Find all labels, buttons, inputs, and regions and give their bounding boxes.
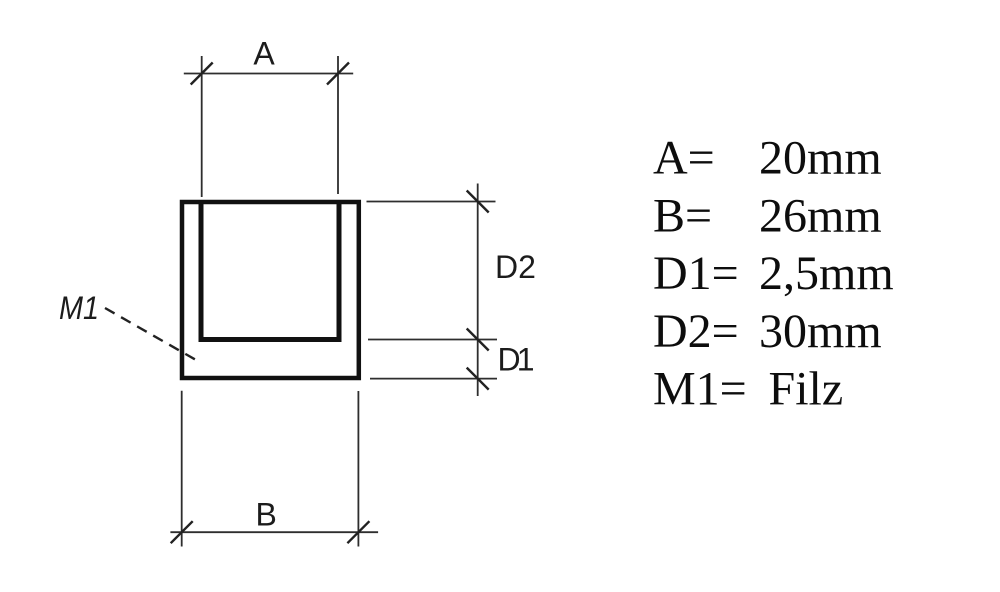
svg-text:D1=: D1= bbox=[653, 247, 739, 300]
tick B right bbox=[347, 521, 369, 543]
extension line middle (inner bottom) bbox=[368, 339, 497, 341]
profile inner U (tube cavity) bbox=[201, 201, 339, 340]
svg-text:30mm: 30mm bbox=[759, 305, 882, 358]
svg-text:A: A bbox=[253, 36, 275, 72]
tick D middle bbox=[467, 329, 489, 351]
svg-text:A=: A= bbox=[653, 132, 715, 185]
svg-text:B=: B= bbox=[653, 189, 712, 242]
extension line bottom (outer bottom) bbox=[370, 378, 497, 380]
tick A left bbox=[191, 63, 213, 85]
tick D top bbox=[467, 191, 489, 213]
dimension B extension line right bbox=[357, 391, 359, 547]
tick D bottom bbox=[467, 368, 489, 390]
dimension A extension line left bbox=[201, 56, 203, 197]
svg-text:2,5mm: 2,5mm bbox=[759, 247, 894, 300]
dimension B line bbox=[170, 531, 378, 533]
svg-text:20mm: 20mm bbox=[759, 132, 882, 185]
svg-text:D2: D2 bbox=[495, 249, 536, 285]
tick A right bbox=[327, 63, 349, 85]
profile outer rectangle (cap cross-section) bbox=[182, 202, 359, 378]
svg-text:26mm: 26mm bbox=[759, 189, 882, 242]
svg-text:B: B bbox=[256, 496, 277, 532]
dimension A line bbox=[184, 73, 353, 75]
tick B left bbox=[171, 521, 193, 543]
dimension D vertical line bbox=[477, 184, 479, 397]
svg-text:Filz: Filz bbox=[769, 363, 844, 416]
dimension B extension line left bbox=[181, 391, 183, 547]
extension line top (profile top) bbox=[367, 201, 496, 203]
dimension A extension line right bbox=[337, 56, 339, 194]
svg-text:M1: M1 bbox=[59, 290, 99, 326]
leader line M1 (dashed) bbox=[105, 308, 196, 360]
svg-text:D1: D1 bbox=[498, 342, 535, 378]
svg-text:D2=: D2= bbox=[653, 305, 739, 358]
svg-text:M1=: M1= bbox=[653, 363, 747, 416]
